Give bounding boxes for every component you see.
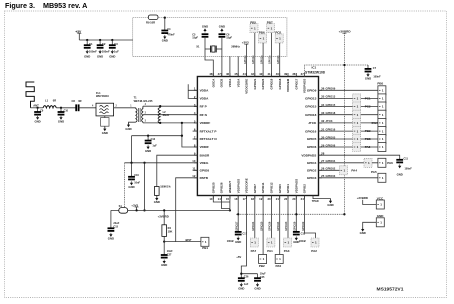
node junctions VREG wire [130,162,132,164]
capacitor C6 [219,34,226,38]
wire PB7 to pin 41 [270,33,272,77]
wire VREG left drop to rail [124,163,126,208]
wire C12 drop [147,136,149,141]
wire C1 drop [86,40,88,45]
filter FL1 [96,91,114,116]
svg-text:C4: C4 [167,27,171,31]
svg-text:PC2: PC2 [365,105,371,109]
resistor R9 [146,15,158,25]
svg-text:C2: C2 [102,42,106,46]
svg-text:C12: C12 [151,138,156,141]
connector PB2 [259,255,267,269]
svg-text:GPIO17: GPIO17 [294,78,298,89]
svg-text:C8: C8 [72,99,76,103]
IC U1 STM32W108 body [197,77,318,196]
wire R3 to ground [156,195,158,198]
svg-text:100nF: 100nF [102,50,110,54]
wire pin 15 drop join rail [229,196,231,211]
wire C2 drop [99,40,101,45]
svg-text:37: 37 [301,72,305,76]
ground C6 [219,25,225,33]
svg-text:VDDMEM: VDDMEM [286,78,290,92]
connector PA8 [365,143,386,152]
svg-text:S1: S1 [119,204,123,208]
connector PB5 [250,20,258,32]
C11 labels [404,157,413,170]
connector PC1 [365,94,386,103]
wire X1 left to pin 48 [205,49,213,77]
svg-text:GND: GND [219,25,225,29]
svg-text:PA5: PA5 [371,170,377,174]
svg-text:VDDPADS: VDDPADS [294,179,298,193]
wire PB5 to pin 43 [254,33,256,77]
svg-text:GND: GND [109,55,115,59]
svg-text:GND: GND [102,131,108,135]
node junctions L2 [159,105,161,107]
svg-text:GPIO15: GPIO15 [305,105,316,109]
svg-text:+3VBRD: +3VBRD [357,196,368,200]
wire T1 pin4 to IC RF_P (pin 3) [143,105,198,107]
svg-text:21: 21 [276,197,280,201]
svg-text:IC1: IC1 [312,66,317,70]
svg-text:180K/1%: 180K/1% [160,185,171,188]
svg-text:R9 10R: R9 10R [146,21,155,25]
C27 labels [167,250,173,256]
capacitor C5 [202,34,209,38]
svg-text:MB953 rev. A: MB953 rev. A [43,1,87,10]
wire C26 drop [240,274,242,279]
svg-text:0R: 0R [53,99,56,103]
pin 7 stub RFTXALT_N [193,138,198,140]
power label +3V [75,30,82,40]
wire C3 drop [111,40,113,45]
svg-text:VDDRF: VDDRF [200,121,211,125]
wire right pin row 8 [319,146,378,148]
ground C11 [397,164,403,176]
svg-text:GND: GND [360,231,366,235]
svg-text:1uF: 1uF [152,144,157,147]
svg-text:47: 47 [218,72,222,76]
pin 6 stub RFTXALT_P [193,130,198,132]
capacitor C4 [161,31,168,35]
svg-text:GND: GND [235,240,241,244]
svg-text:GPIO12: GPIO12 [270,182,274,193]
node junction C2 [99,39,101,41]
series component row 7 [353,135,361,144]
svg-text:1uF: 1uF [244,283,249,286]
svg-text:GPIO11: GPIO11 [261,182,265,193]
IC right pin numbers and net labels [321,87,336,179]
wire C9 drop [37,108,39,112]
svg-text:TPAD: TPAD [312,199,319,203]
ground FL1 [102,127,108,135]
inductor L1 [43,99,56,108]
svg-text:PC1: PC1 [365,96,371,100]
connector PB6 [259,31,267,43]
svg-text:C16: C16 [134,174,139,177]
wire FL1 to T1 [114,107,136,109]
svg-text:10K: 10K [168,230,173,234]
svg-text:GPIO21: GPIO21 [253,78,257,89]
svg-text:GPIO2x: GPIO2x [260,55,263,64]
wire RSTB pin 12 [176,178,198,242]
connector PA4 [340,166,358,175]
svg-text:VDDA: VDDA [236,78,240,87]
svg-text:100nF: 100nF [405,168,413,171]
C3 labels [114,42,119,54]
svg-text:GND: GND [154,200,160,204]
wire pin 27 [319,162,378,164]
svg-text:GPIO5: GPIO5 [307,137,317,141]
svg-text:GPIO25: GPIO25 [211,182,215,193]
connector PA7 [250,238,258,253]
svg-text:PB6: PB6 [259,31,265,35]
IC bottom pin name labels [211,178,306,193]
svg-text:RF N: RF N [200,113,208,117]
wire bracket pin5-pin8 [182,123,198,147]
wire C10 drop [60,108,62,112]
wire C27 drop [163,242,165,255]
C25 labels [260,273,266,279]
svg-text:GND: GND [125,127,131,131]
capacitor C9 [34,112,41,116]
connector PA5 [371,170,386,182]
svg-text:GPIO6: GPIO6 [307,145,317,149]
wire antenna to L1 [31,107,44,109]
connector PB8 [365,135,386,144]
svg-text:VDDIF: VDDIF [200,145,209,149]
wire pin 46 to box bottom [229,56,231,76]
power label +3V3 on rail [131,203,138,211]
wire pin 23 drop [295,196,297,232]
capacitor C8 [76,104,78,111]
FL1 pin number 2 / T1 pin number 1 [116,106,133,108]
capacitor C17 [235,232,242,236]
IC left pin stubs [194,90,198,178]
rotated net labels bottom wires [234,221,304,231]
svg-text:15pF: 15pF [226,37,232,40]
series component row 2 [353,94,361,103]
series component PA6 row [364,158,372,167]
wire VDD feed [132,135,182,137]
C15 labels [113,222,119,228]
svg-text:JTCK: JTCK [308,121,317,125]
svg-text:PA3: PA3 [284,249,290,253]
pin 11 stub [193,169,198,171]
wire right pin row 3 [319,106,378,108]
svg-text:GPIO22: GPIO22 [301,221,305,231]
power label +3VBRD top [339,29,352,33]
svg-text:+3V3: +3V3 [242,40,249,44]
svg-text:+5V: +5V [236,255,241,259]
connector VCC [376,196,384,209]
svg-text:GPIO18: GPIO18 [278,78,282,89]
capacitor C10 [58,112,65,116]
IC1 reference label [305,66,325,75]
wire pin 37 to +3VBRD [305,65,368,77]
svg-text:GND: GND [327,203,333,207]
capacitor C15 22uF [108,228,115,232]
connector PA2 [311,238,319,253]
C7 labels [373,67,381,78]
node junction C10 [60,107,62,109]
connector PA0 [275,255,283,269]
capacitor C3 [109,45,116,49]
svg-text:470nF: 470nF [167,33,175,37]
IC bottom pin numbers [209,197,304,201]
svg-text:26MHz: 26MHz [231,45,240,49]
svg-text:PA7: PA7 [251,249,257,253]
wire VREG right drop to rail [144,163,146,211]
svg-text:GPIO18: GPIO18 [305,113,316,117]
svg-text:Figure 3.: Figure 3. [5,1,35,10]
crystal X1 [196,45,240,53]
svg-text:C3: C3 [114,42,118,46]
wire PB6 to pin 42 [262,43,264,77]
ground C10 [58,116,64,124]
svg-text:1uF: 1uF [114,50,119,54]
svg-text:46: 46 [226,72,230,76]
transformer T1 [134,95,153,123]
inductor L2 [158,106,169,123]
wire C25 drop [257,274,259,279]
connector PA6 [378,158,393,167]
svg-text:44: 44 [243,72,247,76]
node junction C3 [111,39,113,41]
svg-text:GPIO13: GPIO13 [305,97,316,101]
svg-text:WE748410: WE748410 [96,94,109,98]
svg-text:GND: GND [161,263,167,267]
capacitor C12 [145,141,152,145]
svg-text:23: 23 [292,197,296,201]
C1 labels [89,42,97,54]
node junctions rail [143,209,145,211]
ground C5 [202,25,208,33]
T1 pin numbers [145,103,147,122]
svg-text:15: 15 [226,197,230,201]
wire +3V rail to box [79,39,132,41]
C5 labels [192,34,198,40]
svg-text:VDDA: VDDA [200,89,210,93]
series component row 8 [353,143,361,152]
wire pin 24 jog [305,196,316,239]
svg-text:15pF: 15pF [192,37,198,40]
wire pin 20 drop [270,196,272,239]
node junction C12 [147,135,149,137]
capacitor C7 [365,69,372,73]
IC top pin numbers [209,72,304,76]
connector PA1 [267,238,275,253]
T1 primary ground [129,122,136,124]
svg-text:X1: X1 [196,45,200,49]
svg-text:C25: C25 [260,276,265,279]
ground TPAD [327,199,333,207]
ground aux [360,228,366,236]
svg-text:GPIO24: GPIO24 [261,78,265,89]
connector PC2 [365,102,386,111]
wire FL1 pad to gnd [104,126,106,128]
wire T1 pin2 to IC RF_N (pin 4) [143,114,198,116]
connector PA3 [284,238,292,253]
wire 22uF drop [110,210,112,228]
wire R9 node to C4 [164,18,166,31]
C2 labels [102,42,110,54]
capacitor C16 [128,177,135,181]
rotated net labels top wires [244,55,280,64]
svg-text:C1: C1 [89,42,93,46]
svg-text:24: 24 [301,197,305,201]
svg-text:GPIO2: GPIO2 [303,184,307,194]
wire pin 28 to C11 [319,155,400,160]
wire C8 to FL1 [79,107,96,109]
svg-text:PB8: PB8 [365,137,371,141]
TPAD pad wire [312,196,331,204]
svg-text:GPIO2x: GPIO2x [277,55,280,64]
wire PC0 to pin 40 [279,43,281,77]
svg-text:WE748-421-245: WE748-421-245 [134,99,153,103]
C12 labels [151,138,158,148]
FL1 ground pad box [101,118,109,127]
C8 labels [72,99,82,103]
svg-text:GPIO2x: GPIO2x [252,55,255,64]
IC right pin name labels [301,89,317,181]
C26 labels [244,276,249,286]
svg-text:STM32W108: STM32W108 [305,70,325,74]
svg-text:100nF: 100nF [299,240,307,243]
svg-text:GND: GND [108,237,114,241]
svg-text:+3VBRD: +3VBRD [158,215,169,219]
svg-text:GND: GND [202,25,208,29]
svg-text:GND: GND [397,172,403,176]
wire pin 18 drop [254,196,256,239]
svg-text:19: 19 [259,197,263,201]
connector PB1 nRST [201,237,209,250]
capacitor C26 [238,278,245,282]
IC bottom pin stubs [213,196,304,200]
ground C4 [162,35,168,43]
connector PB0 [377,82,386,95]
series component row 6 [353,127,361,136]
svg-text:GPIO26: GPIO26 [268,221,272,231]
svg-text:10nF: 10nF [134,181,140,184]
svg-text:HSEOUT: HSEOUT [228,181,232,194]
svg-text:C15: C15 [113,225,118,228]
svg-text:MS19572V1: MS19572V1 [377,287,404,293]
wire right pin row 7 [319,138,378,140]
ground C9 [34,116,40,124]
svg-text:GND: GND [97,55,103,59]
svg-text:GPIO2: GPIO2 [307,169,317,173]
svg-text:GND: GND [293,240,299,244]
svg-text:16: 16 [234,197,238,201]
svg-text:43: 43 [251,72,255,76]
IC top pin stubs [213,73,304,77]
svg-text:BIASR: BIASR [200,153,210,157]
wire X1 right to pin 47 [221,49,223,77]
svg-text:GND: GND [254,286,260,290]
svg-text:39: 39 [284,72,288,76]
wire VREG pin 10 [125,162,198,164]
svg-text:PB2: PB2 [259,264,265,268]
svg-text:14: 14 [218,197,222,201]
svg-text:18: 18 [251,197,255,201]
svg-text:OSCB: OSCB [220,78,224,88]
svg-text:RSTB: RSTB [200,176,209,180]
wire pin 26 [319,169,340,171]
wire pin 16 drop [237,196,239,232]
svg-text:33nH: 33nH [163,113,169,117]
svg-text:GPIO8: GPIO8 [200,169,210,173]
wire pin 22 drop [287,196,289,239]
svg-text:C26: C26 [244,276,249,279]
svg-text:R4: R4 [168,226,172,230]
ground C7 [365,73,371,81]
power distribution box (net loop) [133,18,287,57]
wire +3V3 to pin 44 [246,44,248,76]
svg-text:PA6: PA6 [387,161,393,165]
wire pin 21 drop [279,196,281,255]
svg-text:17: 17 [243,197,247,201]
IC left pin name labels [200,89,218,181]
svg-text:13: 13 [209,197,213,201]
FL1 ground pin 3 [105,116,109,122]
svg-text:PA0: PA0 [276,264,282,268]
svg-text:0R: 0R [78,99,81,103]
resistor R4 10K [162,225,173,237]
svg-text:VDDCORE: VDDCORE [245,79,249,94]
C18 labels [299,233,307,244]
svg-text:VDDA: VDDA [228,78,232,87]
svg-text:OSCA: OSCA [211,78,215,88]
svg-text:22: 22 [284,197,288,201]
svg-text:42: 42 [259,72,263,76]
wire 3V3 rail [111,209,230,211]
svg-text:41: 41 [267,72,271,76]
svg-text:PB9: PB9 [365,129,371,133]
svg-text:GPIO21: GPIO21 [251,221,255,231]
connector PC0 [275,31,283,43]
wire BIASR pin 9 [157,155,198,186]
svg-text:GPIO4: GPIO4 [307,161,317,165]
wire X1 left node up [204,38,206,49]
C4 labels [167,27,175,37]
series component row 5 [353,118,361,127]
capacitor C2 [97,45,104,49]
svg-text:PA1: PA1 [267,249,273,253]
wire +3VBRD vertical rail [343,33,345,214]
svg-text:PA8: PA8 [365,145,371,149]
svg-text:GPIO0: GPIO0 [278,184,282,194]
svg-text:GPIO9: GPIO9 [307,89,317,93]
wire X1 right node up [221,38,223,49]
svg-text:GPIO16: GPIO16 [305,129,316,133]
node junction at R9 output [164,17,166,19]
wire C16 drop [131,163,133,177]
svg-text:100nF: 100nF [89,50,97,54]
svg-text:VDDPADS: VDDPADS [301,153,316,157]
svg-text:PC0: PC0 [275,31,281,35]
svg-text:VREG: VREG [200,161,209,165]
svg-text:PA2: PA2 [311,249,317,253]
ground C27 [161,260,167,268]
svg-text:PA4: PA4 [351,168,357,172]
wire T1 pin3 / VDD bias (to pin 5) [143,122,198,124]
capacitor C27 [161,255,168,259]
power label +3V3 (pin 44) [242,40,249,44]
svg-text:FL1: FL1 [96,91,101,95]
svg-text:RFTXALT N: RFTXALT N [200,137,218,141]
wire right pin row 2 [319,97,378,99]
